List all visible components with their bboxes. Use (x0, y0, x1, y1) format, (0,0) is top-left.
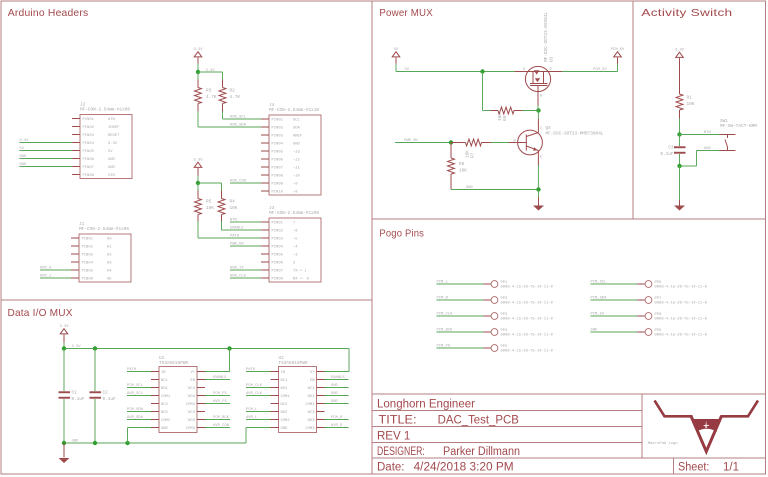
svg-text:PP9: PP9 (655, 329, 663, 333)
svg-text:GND: GND (331, 392, 339, 396)
svg-text:GND: GND (331, 384, 339, 388)
svg-text:PIN01: PIN01 (272, 118, 284, 122)
svg-text:AREF: AREF (293, 134, 303, 138)
svg-text:PIN07: PIN07 (272, 269, 283, 273)
ground activity (674, 166, 685, 211)
svg-text:PIN10: PIN10 (272, 190, 284, 194)
svg-text:PIN05: PIN05 (272, 150, 284, 154)
svg-text:3.3V: 3.3V (19, 139, 29, 143)
svg-text:5V: 5V (405, 68, 410, 72)
svg-text:0908-4-15-20-75-14-11-0: 0908-4-15-20-75-14-11-0 (655, 286, 708, 290)
svg-text:PIN04: PIN04 (83, 142, 95, 146)
svg-text:5V: 5V (19, 147, 24, 151)
resistor R1 (676, 94, 695, 110)
svg-text:TITLE:: TITLE: (379, 415, 417, 427)
resistor R4 (218, 199, 238, 215)
pogo pin PP7 net PCM_SDA (591, 297, 708, 306)
wire net BTN switch (680, 131, 720, 135)
svg-text:MF-CON-2.54mm-#1x08: MF-CON-2.54mm-#1x08 (269, 211, 319, 216)
svg-text:Data I/O MUX: Data I/O MUX (8, 308, 73, 319)
svg-text:3.3V: 3.3V (108, 142, 118, 146)
svg-text:PIN08: PIN08 (272, 277, 284, 281)
svg-text:PWR_ON: PWR_ON (404, 139, 418, 143)
svg-text:1/1: 1/1 (723, 462, 739, 474)
svg-text:~13: ~13 (293, 150, 301, 154)
svg-text:10K: 10K (459, 169, 467, 174)
resistor R8 (448, 143, 468, 190)
wire R6 to gate node (522, 110, 539, 112)
svg-text:AVR_L: AVR_L (246, 416, 258, 420)
svg-text:~4: ~4 (293, 245, 298, 249)
svg-text:GND: GND (19, 155, 27, 159)
svg-text:COM3: COM3 (305, 427, 315, 431)
svg-text:PCM_FS: PCM_FS (213, 392, 227, 396)
svg-text:10K: 10K (687, 102, 695, 107)
svg-text:10K: 10K (206, 206, 214, 211)
pogo pin PP5 net PCM_FS (437, 345, 554, 354)
svg-text:NO2: NO2 (161, 411, 169, 415)
svg-text:PIN03: PIN03 (83, 134, 95, 138)
svg-text:Sheet:: Sheet: (678, 462, 709, 474)
svg-text:SCL: SCL (293, 118, 301, 122)
svg-text:Date:: Date: (377, 462, 405, 474)
svg-text:AVR_FS: AVR_FS (213, 400, 227, 404)
supply 3.3V activity (675, 48, 685, 94)
wire net AVR_CLK U2 (246, 392, 271, 396)
wire R1 to BTN node (679, 110, 681, 135)
junction BTN node (677, 132, 681, 136)
svg-text:PIN02: PIN02 (272, 126, 284, 130)
svg-text:MF-DSC-SOT23-BSS84L: MF-DSC-SOT23-BSS84L (544, 12, 549, 62)
svg-text:PIN04: PIN04 (272, 142, 284, 146)
wire net ADD_1 to J1 pin 6 (40, 275, 71, 279)
svg-text:ENABLE: ENABLE (331, 376, 345, 380)
svg-text:J2: J2 (80, 102, 86, 107)
svg-text:R4: R4 (230, 200, 236, 205)
connector J3 (261, 206, 321, 282)
svg-text:GND: GND (108, 166, 116, 170)
svg-text:PP3: PP3 (501, 313, 509, 317)
resistor R6 (491, 107, 523, 121)
svg-text:GND: GND (72, 440, 80, 444)
svg-text:GND: GND (331, 400, 339, 404)
pogo pin PP2 net PCM_R (437, 297, 554, 306)
svg-text:J1: J1 (79, 222, 85, 227)
svg-text:COM1: COM1 (161, 395, 171, 399)
svg-text:NC2: NC2 (161, 403, 169, 407)
wire net GND switch (680, 147, 720, 166)
svg-text:PCM_R: PCM_R (331, 416, 343, 420)
svg-text:PIN05: PIN05 (82, 269, 94, 273)
resistor R7 (451, 139, 491, 158)
svg-text:AVR_SCL: AVR_SCL (127, 392, 144, 396)
svg-text:COM4: COM4 (186, 403, 196, 407)
svg-text:PCM_5V: PCM_5V (593, 68, 607, 72)
svg-text:0908-4-15-20-75-14-11-0: 0908-4-15-20-75-14-11-0 (501, 318, 554, 322)
wire net PATH U1 (127, 368, 151, 372)
svg-text:GND: GND (19, 163, 27, 167)
wire net PCM_CLK U2 (246, 384, 271, 388)
svg-text:PATH: PATH (127, 368, 136, 372)
svg-text:MF-CON-2.54mm-#1x08: MF-CON-2.54mm-#1x08 (80, 108, 130, 113)
wire net AVR_R U2 (325, 424, 349, 428)
wire net 3.3V to J2 pin 4 (19, 139, 72, 143)
wire net AVR_FS U1 (205, 400, 230, 404)
wire net AVR_SDA U1 (127, 416, 151, 420)
wire net BTN to J3 pin 1 (230, 219, 261, 223)
svg-text:PIN02: PIN02 (83, 126, 95, 130)
svg-text:RESET: RESET (108, 134, 120, 138)
svg-text:C3: C3 (668, 146, 674, 151)
pogo pin PP9 net GND (591, 329, 708, 338)
svg-text:V+: V+ (190, 371, 195, 375)
supply 3.3V (group 2) (193, 158, 203, 183)
svg-text:Longhorn Engineer: Longhorn Engineer (377, 399, 475, 411)
svg-text:PP1: PP1 (501, 281, 509, 285)
svg-text:PIN06: PIN06 (272, 158, 284, 162)
svg-text:NC4: NC4 (308, 387, 316, 391)
svg-text:C2: C2 (103, 391, 109, 396)
svg-text:NC2: NC2 (281, 403, 289, 407)
title block text (377, 399, 739, 474)
svg-text:PIN01: PIN01 (82, 237, 94, 241)
svg-text:Arduino Headers: Arduino Headers (8, 8, 89, 19)
svg-text:R2: R2 (230, 89, 236, 94)
wire net GND U2 NO4 (325, 392, 349, 396)
svg-text:MacroFab Logo: MacroFab Logo (648, 441, 678, 446)
svg-text:PIN01: PIN01 (272, 221, 284, 225)
transistor U3 P-MOSFET (515, 12, 563, 111)
wire net PCM_SDA U1 (127, 408, 151, 412)
svg-text:NO4: NO4 (188, 395, 196, 399)
op-amp U1 analog mux (151, 356, 205, 433)
svg-text:PWR_ON: PWR_ON (230, 243, 244, 247)
wire net ENABLE U1 (205, 376, 230, 380)
svg-text:TS3A5018PWR: TS3A5018PWR (279, 361, 308, 366)
svg-text:~12: ~12 (293, 158, 301, 162)
svg-text:PCM_BCK: PCM_BCK (213, 416, 230, 420)
svg-text:PIN01: PIN01 (83, 118, 95, 122)
svg-text:DAC_Test_PCB: DAC_Test_PCB (438, 415, 520, 427)
svg-text:0908-4-15-20-75-14-11-0: 0908-4-15-20-75-14-11-0 (501, 350, 554, 354)
svg-text:0908-4-15-20-75-14-11-0: 0908-4-15-20-75-14-11-0 (655, 318, 708, 322)
svg-text:IN: IN (161, 371, 166, 375)
svg-text:3.3V: 3.3V (193, 158, 203, 162)
junction rail at C2 (93, 346, 97, 350)
svg-text:5V: 5V (108, 150, 113, 154)
wire R7 to Q4 base (491, 142, 518, 144)
supply 3.3V (pullups) (193, 48, 203, 72)
svg-text:PATH: PATH (246, 368, 255, 372)
svg-text:C1: C1 (72, 391, 78, 396)
svg-text:PIN06: PIN06 (83, 158, 95, 162)
connector J2 (72, 102, 132, 178)
pogo pin PP6 net PCM_SCL (591, 281, 708, 290)
wire 3.3V to R3 top (197, 72, 199, 88)
svg-text:NC4: NC4 (188, 387, 196, 391)
wire net GND to J2 pin 6 (19, 155, 72, 159)
resistor R2 (219, 88, 240, 104)
svg-text:PATH: PATH (230, 235, 239, 239)
pogo pin PP3 net PCM_CLK (437, 313, 554, 322)
wire U1 GND to rail (128, 428, 152, 444)
capacitor C3 (660, 135, 685, 167)
svg-text:NO3: NO3 (308, 419, 316, 423)
svg-text:7: 7 (293, 221, 295, 225)
capacitor C2 (90, 349, 117, 444)
svg-text:ATN: ATN (108, 118, 115, 122)
svg-text:NC1: NC1 (161, 379, 169, 383)
resistor R3 (195, 88, 217, 104)
transistor Q4 NPN (514, 111, 604, 191)
wire 5V junction to R6 (483, 72, 491, 111)
svg-text:Q4: Q4 (546, 126, 552, 131)
junction gnd at C2 (93, 441, 97, 445)
svg-text:ENABLE: ENABLE (213, 376, 227, 380)
wire net ENABLE U2 (325, 376, 349, 380)
svg-text:PIN05: PIN05 (272, 253, 284, 257)
svg-text:0908-4-15-20-75-14-11-0: 0908-4-15-20-75-14-11-0 (655, 302, 708, 306)
svg-text:ENABLE: ENABLE (230, 227, 244, 231)
svg-text:PIN06: PIN06 (272, 261, 284, 265)
wire net GND to J2 pin 7 (19, 163, 72, 167)
wire 3.3V to R5 top (197, 183, 199, 199)
junction PWR_ON node (449, 140, 453, 144)
svg-text:3.3V: 3.3V (675, 48, 685, 52)
svg-text:~6: ~6 (293, 229, 298, 233)
wire net AVR_SDA (198, 104, 261, 128)
svg-text:~10: ~10 (293, 174, 301, 178)
svg-text:GND: GND (704, 147, 712, 151)
wire net 5V to J2 pin 5 (19, 147, 72, 151)
switch SW1 (720, 119, 758, 151)
wire net PATH U2 (246, 368, 271, 372)
svg-text:NC3: NC3 (308, 411, 316, 415)
wire net PCM_BCK U1 (205, 416, 230, 420)
junction 5V node (480, 69, 484, 73)
wire net AVR_L U2 (246, 416, 271, 420)
svg-text:PCM_SDA: PCM_SDA (127, 408, 144, 412)
svg-text:GND: GND (293, 142, 301, 146)
svg-text:PIN04: PIN04 (272, 245, 284, 249)
svg-text:BTN: BTN (704, 131, 711, 135)
svg-text:ADD_1: ADD_1 (40, 275, 52, 279)
svg-text:3.3V: 3.3V (193, 48, 203, 52)
resistor R5 (195, 199, 215, 215)
svg-text:R7: R7 (471, 152, 476, 158)
svg-text:~11: ~11 (293, 166, 301, 170)
ground powermux (533, 190, 544, 211)
wire net AVR_SCL (223, 104, 262, 120)
svg-text:AVR_R: AVR_R (331, 424, 343, 428)
svg-text:5V: 5V (394, 48, 399, 52)
svg-text:COM3: COM3 (186, 427, 196, 431)
wire net ADD_0 to J1 pin 5 (40, 267, 71, 271)
svg-text:EN: EN (190, 379, 195, 383)
svg-text:R6: R6 (503, 115, 508, 121)
junction below C3 (677, 164, 681, 168)
svg-text:Activity Switch: Activity Switch (641, 8, 732, 19)
svg-text:~9: ~9 (293, 182, 298, 186)
svg-text:A1: A1 (107, 245, 112, 249)
capacitor C1 (59, 349, 86, 444)
wire U2 V+ stub (325, 371, 350, 373)
svg-text:PIN02: PIN02 (82, 245, 94, 249)
svg-text:IN: IN (281, 371, 286, 375)
svg-text:AVR_CLK: AVR_CLK (230, 275, 247, 279)
svg-text:~8: ~8 (293, 190, 298, 194)
svg-text:NO3: NO3 (188, 419, 196, 423)
svg-text:TS3A5018PWR: TS3A5018PWR (159, 361, 188, 366)
svg-text:V+: V+ (310, 371, 315, 375)
wire net AVR_TX to J3 pin 7 (230, 267, 261, 271)
svg-text:PIN09: PIN09 (272, 182, 284, 186)
junction gnd at C1 (62, 441, 66, 445)
svg-text:GND: GND (108, 158, 116, 162)
svg-text:10K: 10K (230, 206, 238, 211)
svg-text:NO1: NO1 (281, 387, 289, 391)
svg-text:PP5: PP5 (501, 345, 509, 349)
svg-text:BTN: BTN (230, 219, 237, 223)
svg-text:0.1uF: 0.1uF (72, 397, 86, 402)
svg-text:4.7K: 4.7K (206, 95, 217, 100)
svg-text:0908-4-15-20-75-14-11-0: 0908-4-15-20-75-14-11-0 (501, 286, 554, 290)
wire net PATH (198, 215, 261, 239)
wire net GND U2 COM4 (325, 400, 349, 404)
wire net AVR_CON U1 (205, 424, 230, 428)
wire net AVR_CON (230, 180, 261, 184)
svg-text:J3: J3 (269, 206, 275, 211)
wire U1 V+ to rail (205, 349, 230, 372)
svg-text:AVR_TX: AVR_TX (230, 267, 244, 271)
connector J4 (261, 103, 321, 195)
svg-text:A5: A5 (107, 277, 112, 281)
logo longhorn (648, 401, 758, 452)
svg-text:Pogo Pins: Pogo Pins (379, 229, 424, 240)
svg-text:AVR_SDA: AVR_SDA (127, 416, 144, 420)
wire GND rail (64, 440, 246, 444)
svg-text:NO1: NO1 (161, 387, 169, 391)
svg-text:EN: EN (310, 379, 315, 383)
svg-text:REV 1: REV 1 (377, 431, 410, 443)
junction node 3.3V (196, 69, 216, 74)
svg-text:0908-4-15-20-75-14-11-0: 0908-4-15-20-75-14-11-0 (655, 334, 708, 338)
svg-text:PIN03: PIN03 (272, 134, 284, 138)
svg-text:PCM_SCL: PCM_SCL (127, 384, 144, 388)
wire net PWR_ON (395, 139, 451, 143)
svg-text:0.1uF: 0.1uF (103, 397, 117, 402)
svg-text:COM2: COM2 (281, 419, 291, 423)
svg-text:AVR_CLK: AVR_CLK (246, 392, 263, 396)
svg-text:COM1: COM1 (281, 395, 291, 399)
svg-text:R1: R1 (687, 96, 693, 101)
svg-text:NC3: NC3 (188, 411, 196, 415)
junction gate node (536, 108, 540, 112)
svg-text:NC1: NC1 (281, 379, 289, 383)
svg-text:MF-SW-TACT-6MM: MF-SW-TACT-6MM (720, 124, 757, 129)
svg-text:PIN06: PIN06 (82, 277, 94, 281)
wire net GND powermux (451, 186, 539, 190)
svg-text:ADD_0: ADD_0 (40, 267, 52, 271)
wire net AVR_CLK to J3 pin 8 (230, 275, 261, 279)
svg-text:SDA: SDA (293, 126, 301, 130)
connector J1 (71, 222, 131, 282)
svg-text:RX <- 0: RX <- 0 (293, 276, 310, 281)
svg-text:3.3V: 3.3V (72, 345, 82, 349)
svg-text:A0: A0 (107, 237, 112, 241)
svg-text:PP7: PP7 (655, 297, 662, 301)
wire net PCM_5V drain (562, 68, 618, 72)
svg-text:Power MUX: Power MUX (379, 8, 433, 19)
svg-text:AVR_SDA: AVR_SDA (230, 124, 247, 128)
svg-text:COM2: COM2 (161, 419, 171, 423)
svg-text:COM4: COM4 (305, 403, 315, 407)
svg-text:PIN04: PIN04 (82, 261, 94, 265)
pogo pin PP8 net PCM_5V (591, 313, 708, 322)
svg-text:PIN07: PIN07 (272, 166, 283, 170)
supply 3.3V dataio (59, 325, 69, 349)
pogo pin PP1 net PCM_L (437, 281, 554, 290)
svg-text:PP4: PP4 (501, 329, 509, 333)
wire net PCM_L U2 (246, 408, 271, 412)
svg-text:4.7K: 4.7K (230, 95, 241, 100)
svg-text:J4: J4 (269, 103, 275, 108)
svg-text:~5: ~5 (293, 237, 298, 241)
svg-text:MF-DSC-SOT23-MMBT3904L: MF-DSC-SOT23-MMBT3904L (546, 131, 604, 136)
svg-text:PIN02: PIN02 (272, 229, 284, 233)
svg-text:PCM_5V: PCM_5V (611, 48, 625, 52)
svg-text:PIN08: PIN08 (83, 174, 95, 178)
svg-text:AVR_CON: AVR_CON (213, 424, 229, 428)
svg-text:GND: GND (466, 186, 474, 190)
svg-text:GND: GND (161, 427, 169, 431)
svg-text:MF-CON-2.54mm-#1x06: MF-CON-2.54mm-#1x06 (79, 227, 129, 232)
svg-text:AVR_SCL: AVR_SCL (230, 116, 247, 120)
svg-text:NO4: NO4 (308, 395, 316, 399)
junction GND node (536, 187, 540, 191)
wire net GND U2 NC4 (325, 384, 349, 388)
svg-text:PP2: PP2 (501, 297, 509, 301)
svg-text:NO2: NO2 (281, 411, 289, 415)
svg-text:MF-CON-2.54mm-#1x10: MF-CON-2.54mm-#1x10 (269, 108, 319, 113)
svg-text:A2: A2 (107, 253, 112, 257)
svg-text:0908-4-15-20-75-14-11-0: 0908-4-15-20-75-14-11-0 (501, 334, 554, 338)
wire net PCM_FS U1 (205, 392, 230, 396)
svg-text:U3: U3 (550, 56, 555, 62)
svg-text:PIN03: PIN03 (82, 253, 94, 257)
svg-text:PIN05: PIN05 (83, 150, 95, 154)
svg-text:PP6: PP6 (655, 281, 663, 285)
svg-text:IOREF: IOREF (108, 126, 120, 130)
wire U2 GND to rail (246, 428, 271, 444)
svg-text:DESIGNER:: DESIGNER: (377, 446, 425, 458)
svg-text:GND: GND (281, 427, 289, 431)
svg-text:PCM_CLK: PCM_CLK (246, 384, 263, 388)
svg-text:0908-4-15-20-75-14-11-0: 0908-4-15-20-75-14-11-0 (501, 302, 554, 306)
junction rail at U1 V+ (227, 346, 231, 350)
svg-text:~3: ~3 (293, 253, 298, 257)
ground dataio (59, 443, 70, 463)
wire net PCM_R U2 (325, 416, 349, 420)
junction node 3.3V group2 (196, 181, 200, 185)
wire 3.3V to R2 top (198, 72, 223, 88)
pogo pin PP4 net PCM_BCK (437, 329, 554, 338)
svg-text:PP8: PP8 (655, 313, 663, 317)
supply PCM_5V (611, 48, 625, 72)
wire 5V rail (396, 68, 515, 72)
op-amp U2 analog mux (271, 356, 325, 433)
wire 3.3V rail (64, 345, 349, 371)
